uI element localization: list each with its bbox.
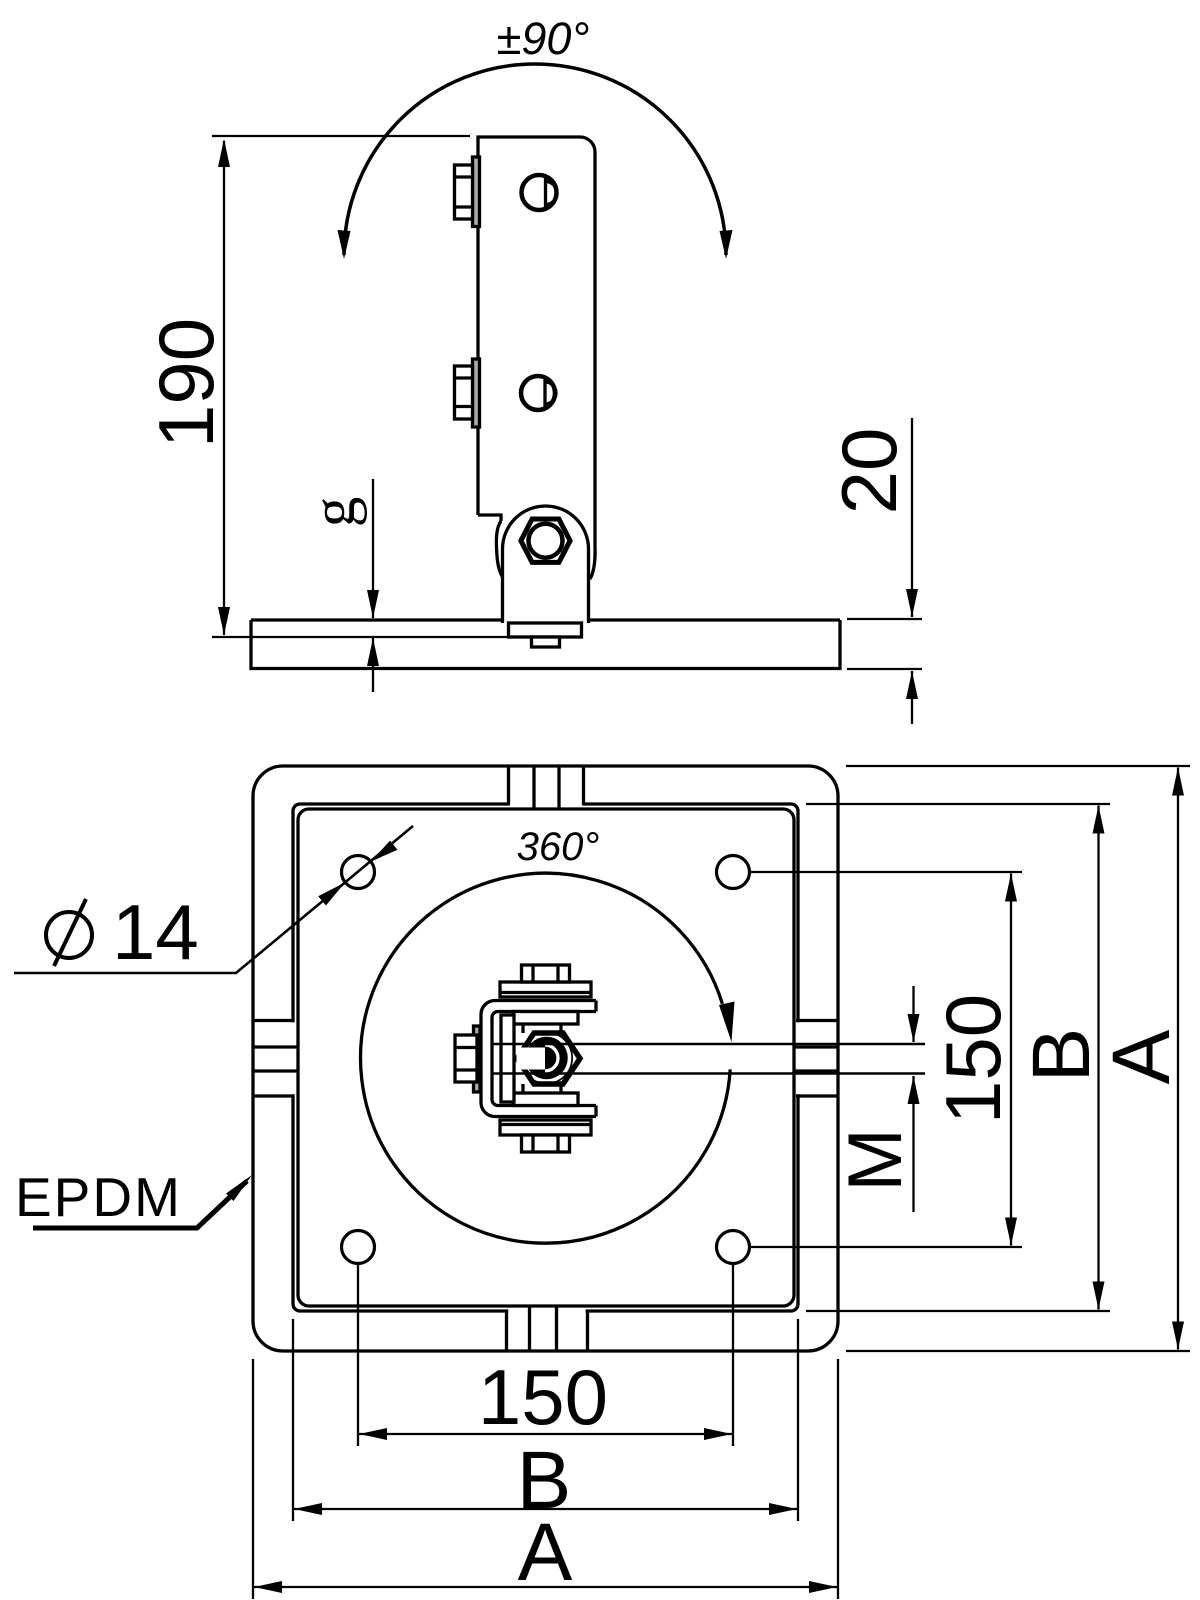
arrowhead g down — [367, 590, 379, 618]
svg-text:150: 150 — [929, 994, 1017, 1124]
bolt M washer lower — [473, 359, 480, 427]
bracket plate left curl — [496, 521, 502, 577]
svg-text:±90°: ±90° — [497, 13, 590, 64]
hinge foot tab — [532, 637, 560, 647]
dimension 20 line lower — [911, 671, 913, 724]
hole upper — [522, 175, 557, 210]
extension line top of bracket — [212, 135, 470, 137]
hole lower — [521, 376, 555, 410]
svg-text:A: A — [518, 1507, 573, 1598]
arrowhead g up — [367, 638, 379, 666]
bolt hex head lower — [455, 366, 473, 419]
hole top-right — [717, 856, 750, 889]
clamp left hex head — [455, 1035, 477, 1082]
arrowhead 190 bottom — [218, 607, 230, 635]
slot marker bottom — [507, 1306, 588, 1351]
clamp C bracket — [481, 1001, 596, 1117]
extension line plate top right — [847, 618, 922, 620]
clamp upper inner bar — [513, 1012, 578, 1025]
svg-text:360°: 360° — [517, 825, 600, 869]
dimension 150 bottom — [357, 1264, 359, 1446]
EPDM pad outline — [298, 809, 794, 1306]
hole bottom-right — [717, 1231, 750, 1264]
dimension B right — [806, 803, 1110, 805]
leader EPDM — [33, 1181, 247, 1228]
arrowhead 20 up — [906, 671, 918, 699]
bracket plate bottom step — [478, 515, 501, 521]
bolt M washer upper — [473, 157, 480, 227]
hinge body right side — [587, 549, 590, 623]
svg-text:EPDM: EPDM — [15, 1166, 182, 1228]
extension line seat level — [212, 636, 507, 638]
dimension 20 line upper — [911, 418, 913, 617]
arc ±90° swing — [344, 64, 726, 255]
svg-text:A: A — [1096, 1029, 1187, 1084]
arrowhead 20 down — [906, 589, 918, 617]
bracket plate right curl — [590, 546, 595, 579]
arrowhead arc left — [338, 230, 351, 259]
hinge dome — [503, 506, 589, 549]
slot gap patches — [510, 802, 582, 807]
svg-text:M: M — [833, 1128, 918, 1191]
dimension B bottom — [292, 1319, 294, 1521]
clamp center washer disc — [520, 1032, 573, 1085]
svg-text:14: 14 — [112, 888, 199, 976]
clamp center washer inner white ring — [524, 1035, 570, 1081]
clamp top hex head — [522, 965, 570, 982]
clamp center bolt shank — [517, 1048, 546, 1070]
hinge body left side — [501, 549, 504, 623]
hinge hex nut — [521, 519, 570, 562]
clamp top washer plate — [500, 982, 591, 997]
label Ø14 symbol — [46, 912, 92, 958]
bracket vertical plate — [478, 137, 595, 546]
svg-text:20: 20 — [825, 428, 913, 515]
dimension 190 line — [223, 141, 225, 635]
hole top-left — [342, 856, 375, 889]
svg-text:B: B — [1016, 1028, 1107, 1083]
dimension M right — [912, 986, 914, 1042]
dimension 150 right — [751, 871, 1022, 873]
slot lines M — [492, 1043, 925, 1046]
arrowhead Ø14 lower — [318, 882, 345, 905]
arrowhead EPDM — [226, 1175, 252, 1201]
dimension g line lower — [372, 638, 374, 692]
circle 360° rotation — [361, 873, 731, 1243]
svg-text:190: 190 — [142, 318, 230, 448]
clamp bottom hex head — [522, 1135, 570, 1152]
arrowhead 190 top — [218, 139, 230, 167]
slot marker top — [509, 767, 584, 811]
slot marker left — [254, 1021, 300, 1097]
clamp shank lines — [523, 1024, 561, 1093]
dimension g line upper — [372, 479, 374, 618]
clamp center hex nut — [517, 1033, 580, 1084]
svg-text:150: 150 — [478, 1353, 608, 1441]
arrowhead arc right — [720, 230, 733, 259]
clamp center bolt tip white arc — [545, 1045, 558, 1071]
clamp left washer — [474, 1026, 481, 1092]
hinge foot — [509, 623, 582, 637]
clamp vise plate — [501, 1015, 514, 1102]
svg-text:g: g — [301, 497, 368, 528]
leader Ø14 — [14, 826, 413, 973]
slot marker right — [793, 1021, 838, 1097]
dimension A bottom — [252, 1359, 254, 1599]
extension line plate bottom right — [847, 668, 922, 670]
hinge pin circle — [529, 524, 563, 558]
base plate — [251, 620, 840, 669]
arrowhead 360° — [719, 1002, 735, 1043]
outer square plate — [253, 766, 838, 1351]
dimension A right — [846, 765, 1190, 767]
clamp bottom washer plate — [500, 1120, 591, 1135]
inner square — [293, 804, 798, 1311]
clamp lower inner bar — [513, 1093, 578, 1106]
arrowhead Ø14 upper — [371, 841, 398, 862]
hole bottom-left — [342, 1231, 375, 1264]
bolt hex head upper — [455, 165, 473, 219]
